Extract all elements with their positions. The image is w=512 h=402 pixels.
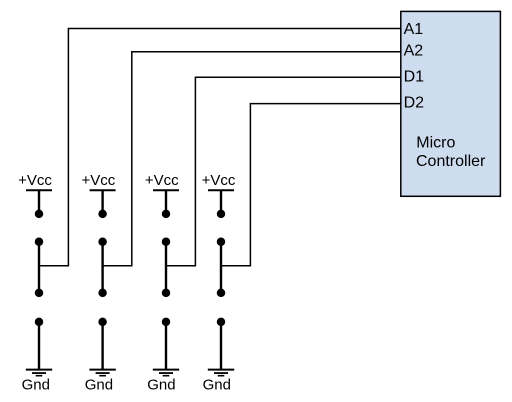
Vcc supply symbol (S4): [208, 190, 234, 214]
ground (S4): [208, 370, 234, 376]
label +Vcc (S2): [82, 172, 116, 189]
Vcc supply symbol (S1): [26, 190, 52, 214]
switch S3 arm: [162, 237, 171, 297]
label Gnd (S2): [85, 377, 113, 394]
svg-text:Gnd: Gnd: [203, 377, 231, 394]
wire D2 to switch S4: [221, 104, 401, 266]
node: S3 upper contact: [162, 210, 171, 219]
label Micro Controller: [416, 135, 486, 170]
label +Vcc (S1): [18, 172, 52, 189]
svg-text:Gnd: Gnd: [147, 377, 175, 394]
node: S4 lower contact: [217, 318, 226, 327]
label Gnd (S1): [22, 377, 50, 394]
pin A1 label: [404, 21, 424, 38]
svg-text:D2: D2: [404, 94, 425, 111]
svg-text:Controller: Controller: [416, 153, 486, 170]
node: S2 lower contact: [98, 318, 107, 327]
label +Vcc (S3): [145, 172, 179, 189]
node: S3 lower contact: [162, 318, 171, 327]
node: S1 upper contact: [35, 210, 44, 219]
svg-text:Micro: Micro: [416, 135, 455, 152]
node: S1 lower contact: [35, 318, 44, 327]
wire D1 to switch S3: [166, 77, 401, 266]
wire A1 to switch S1: [39, 29, 401, 266]
svg-text:+Vcc: +Vcc: [202, 172, 236, 189]
pin D2 label: [404, 94, 425, 111]
pin D1 label: [404, 69, 425, 86]
Vcc supply symbol (S2): [90, 190, 116, 214]
pin A2 label: [404, 43, 424, 60]
ground stem (S4): [220, 322, 222, 370]
svg-text:Gnd: Gnd: [85, 377, 113, 394]
ground (S2): [89, 370, 115, 376]
svg-text:+Vcc: +Vcc: [82, 172, 116, 189]
svg-text:A2: A2: [404, 43, 424, 60]
Vcc supply symbol (S3): [153, 190, 179, 214]
label Gnd (S4): [203, 377, 231, 394]
switch S4 arm: [217, 237, 226, 297]
ground (S1): [26, 370, 52, 376]
switch S2 arm: [98, 237, 107, 297]
svg-text:+Vcc: +Vcc: [145, 172, 179, 189]
svg-text:D1: D1: [404, 69, 425, 86]
ground stem (S2): [101, 322, 103, 370]
switch S1 arm: [35, 237, 44, 297]
svg-text:A1: A1: [404, 21, 424, 38]
microcontroller U1: [401, 11, 501, 196]
svg-text:Gnd: Gnd: [22, 377, 50, 394]
ground (S3): [153, 370, 179, 376]
ground stem (S3): [165, 322, 167, 370]
wire A2 to switch S2: [103, 52, 401, 266]
node: S4 upper contact: [217, 210, 226, 219]
node: S2 upper contact: [98, 210, 107, 219]
ground stem (S1): [38, 322, 40, 370]
label Gnd (S3): [147, 377, 175, 394]
label +Vcc (S4): [202, 172, 236, 189]
svg-text:+Vcc: +Vcc: [18, 172, 52, 189]
